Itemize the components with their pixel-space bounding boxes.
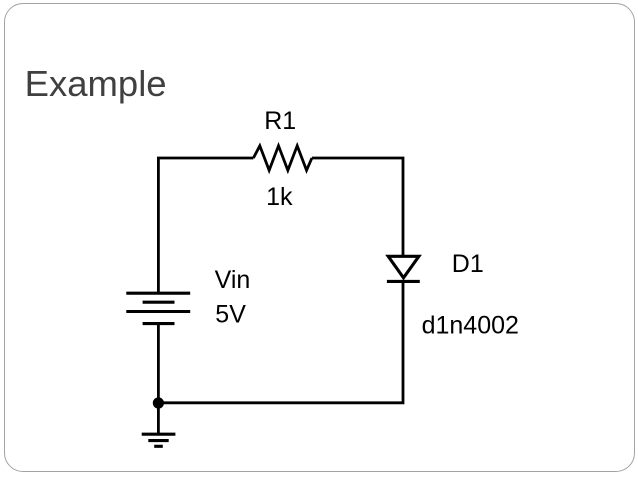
diode D1 triangle	[388, 256, 419, 278]
resistor R1	[253, 146, 312, 171]
battery V1 short plate	[143, 301, 175, 304]
battery V1 long plate (top)	[126, 292, 190, 295]
svg-text:Vin: Vin	[215, 266, 251, 294]
title text "Example"	[25, 66, 167, 103]
node junction dot	[153, 397, 164, 408]
wire: battery minus down through junction to ground	[157, 324, 160, 435]
svg-text:D1: D1	[452, 250, 484, 278]
battery V1 long plate (middle)	[126, 310, 190, 313]
ground bar 3	[154, 445, 163, 448]
svg-text:d1n4002: d1n4002	[422, 311, 519, 339]
wire: top-right segment and right vertical down to diode anode	[312, 158, 403, 256]
ground bar 2	[148, 439, 168, 442]
svg-text:1k: 1k	[266, 183, 293, 211]
wire: top-left segment with left vertical (battery + to resistor)	[158, 158, 253, 293]
ground bar 1	[142, 433, 176, 436]
diode D1 cathode bar	[387, 280, 420, 283]
svg-text:R1: R1	[264, 107, 296, 135]
svg-text:5V: 5V	[215, 300, 246, 328]
battery V1 short plate (bottom)	[143, 322, 175, 325]
wire: diode cathode down right vertical and bottom wire to junction	[158, 281, 403, 402]
